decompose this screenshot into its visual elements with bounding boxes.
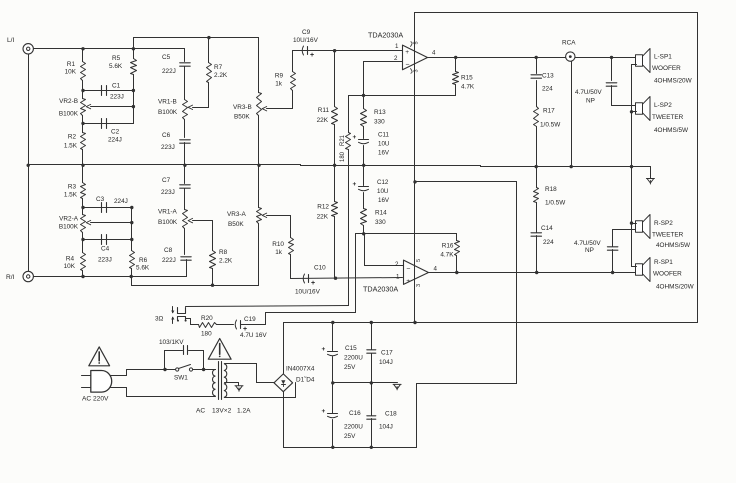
node C16 bottom xyxy=(331,446,334,449)
node rail column C xyxy=(183,164,186,167)
wire R20 to C19 xyxy=(217,324,234,326)
potentiometer VR1-B xyxy=(183,100,188,120)
speaker R-SP2 xyxy=(636,221,643,233)
capacitor C17 xyxy=(371,323,373,350)
node C1 left xyxy=(81,89,84,92)
svg-text:1k: 1k xyxy=(275,249,283,256)
node R14 bottom xyxy=(362,232,365,235)
resistor R11 xyxy=(334,51,336,107)
svg-text:+: + xyxy=(406,278,410,285)
resistor R10 xyxy=(290,216,292,238)
svg-text:R9: R9 xyxy=(275,73,284,80)
resistor R9 xyxy=(292,51,294,72)
wire ground stub xyxy=(632,166,651,168)
svg-text:R-SP1: R-SP1 xyxy=(654,259,673,266)
capacitor C11 xyxy=(359,139,369,141)
svg-text:C19: C19 xyxy=(244,316,256,323)
node C13 top xyxy=(535,56,538,59)
wire R input xyxy=(34,276,187,278)
node R-SP2 return xyxy=(630,221,633,224)
resistor R1 xyxy=(82,49,84,62)
wire C5 to VR1-B xyxy=(184,67,186,100)
node C4 left xyxy=(81,238,84,241)
svg-text:C17: C17 xyxy=(381,350,393,357)
resistor R18 xyxy=(536,167,538,188)
resistor R4 xyxy=(82,240,84,253)
wire secondary centre tap xyxy=(225,382,239,384)
svg-text:R16: R16 xyxy=(442,243,454,250)
svg-text:180: 180 xyxy=(201,331,212,338)
svg-text:R6: R6 xyxy=(139,257,148,264)
svg-text:R12: R12 xyxy=(317,204,329,211)
svg-text:5: 5 xyxy=(414,41,420,44)
svg-text:R20: R20 xyxy=(201,315,213,322)
svg-text:4: 4 xyxy=(434,266,438,273)
wire C19 riser xyxy=(241,324,266,326)
svg-text:WOOFER: WOOFER xyxy=(652,65,681,72)
capacitor C6 xyxy=(180,139,191,141)
resistor R20 xyxy=(199,323,217,328)
capacitor 4.7U/50V NP left xyxy=(611,58,613,81)
svg-text:2.2K: 2.2K xyxy=(214,72,228,79)
resistor R14 xyxy=(363,193,365,209)
svg-text:5.6K: 5.6K xyxy=(109,63,123,70)
svg-text:5.6K: 5.6K xyxy=(136,265,150,272)
wire secondary top xyxy=(225,363,257,365)
wire C8 to R input xyxy=(186,260,188,277)
svg-text:+: + xyxy=(311,280,315,287)
svg-text:2200U: 2200U xyxy=(344,355,363,362)
svg-text:25V: 25V xyxy=(344,433,356,440)
svg-text:B100K: B100K xyxy=(158,219,178,226)
node rail RCA xyxy=(570,165,573,168)
svg-text:C12: C12 xyxy=(377,179,389,186)
capacitor C13 xyxy=(536,58,538,74)
wire VR2-A wiper xyxy=(91,222,132,224)
speaker L-SP2 xyxy=(636,103,643,115)
resistor R3 xyxy=(82,166,84,183)
svg-text:10U: 10U xyxy=(377,188,388,195)
node R7 top xyxy=(207,36,210,39)
svg-text:4OHMS/20W: 4OHMS/20W xyxy=(656,284,695,291)
wire rail corner to VR3-B xyxy=(258,38,260,93)
wire lower-left rail xyxy=(132,285,259,287)
warning triangle plug xyxy=(89,347,110,366)
resistor R6 xyxy=(131,240,133,251)
svg-text:25V: 25V xyxy=(344,364,356,371)
node C4 right xyxy=(130,238,133,241)
svg-text:3Ω: 3Ω xyxy=(155,316,164,323)
node cap riser left xyxy=(163,368,166,371)
svg-text:16V: 16V xyxy=(378,197,390,204)
node NP2 bottom xyxy=(611,271,614,274)
svg-text:C8: C8 xyxy=(164,247,173,254)
wire switch to transformer xyxy=(193,369,216,371)
node C18 bottom xyxy=(370,446,373,449)
wire output-1 xyxy=(428,57,566,59)
svg-text:AC: AC xyxy=(196,408,205,415)
svg-text:1.2A: 1.2A xyxy=(237,408,251,415)
svg-text:222J: 222J xyxy=(162,68,176,75)
connector 3ohm upper xyxy=(172,307,174,313)
resistor R21 xyxy=(348,96,350,133)
svg-text:B100K: B100K xyxy=(59,224,79,231)
wire jack ground column xyxy=(28,55,30,272)
speaker L-SP1 xyxy=(636,55,643,67)
svg-text:103/1KV: 103/1KV xyxy=(159,339,184,346)
wire U2 pin2 xyxy=(364,234,366,266)
svg-text:+: + xyxy=(322,408,326,415)
wire VR1-A to C8 xyxy=(184,229,186,255)
wire connector lower to R20 xyxy=(186,318,191,320)
svg-text:22K: 22K xyxy=(317,117,329,124)
svg-text:+: + xyxy=(353,181,357,188)
wire output-2 xyxy=(429,272,637,274)
wire C6 to rail xyxy=(184,143,186,166)
svg-text:R8: R8 xyxy=(219,249,228,256)
resistor R17 xyxy=(536,81,538,107)
wire power line xyxy=(414,13,416,323)
svg-text:4.7K: 4.7K xyxy=(461,84,475,91)
svg-text:R15: R15 xyxy=(461,75,473,82)
svg-text:RCA: RCA xyxy=(562,40,576,47)
node C9-R11 xyxy=(333,49,336,52)
wire upper-left rail xyxy=(134,37,259,39)
wire secondary bottom xyxy=(225,397,296,399)
node rail R11R12 xyxy=(333,164,336,167)
wire R6 rail jog xyxy=(131,277,133,286)
svg-text:VR1-A: VR1-A xyxy=(158,209,178,216)
bridge rectifier IN4007X4 D1-D4 xyxy=(274,374,293,392)
svg-text:R1: R1 xyxy=(67,61,76,68)
node rail speaker-return xyxy=(630,165,633,168)
wire VR1-B to C6 xyxy=(184,120,186,138)
svg-text:10U: 10U xyxy=(378,141,389,148)
svg-text:VR1-B: VR1-B xyxy=(158,99,177,106)
wire VR2-B wiper xyxy=(91,106,134,108)
wire VR2-B bottom lead xyxy=(82,116,84,124)
svg-text:1/0.5W: 1/0.5W xyxy=(545,200,566,207)
wire VR1-A wiper to R8 xyxy=(193,220,213,222)
transformer T1 secondary xyxy=(224,364,226,398)
wire supply mid line xyxy=(333,382,398,384)
op-amp U1 TDA2030A xyxy=(403,45,428,70)
speaker R-SP1 xyxy=(636,264,643,276)
node NP cap top xyxy=(610,56,613,59)
svg-text:4OHMS/5W: 4OHMS/5W xyxy=(654,127,689,134)
svg-text:R13: R13 xyxy=(374,109,386,116)
svg-text:R14: R14 xyxy=(375,210,387,217)
node R4 bottom xyxy=(81,275,84,278)
svg-text:C4: C4 xyxy=(101,246,110,253)
svg-text:R18: R18 xyxy=(545,186,557,193)
resistor R8 xyxy=(212,221,214,251)
svg-text:2.2K: 2.2K xyxy=(219,258,233,265)
svg-text:VR2-B: VR2-B xyxy=(59,98,78,105)
node rail C11C12 xyxy=(362,164,365,167)
wire feedback-2 xyxy=(356,233,457,235)
wire R-SP1 return xyxy=(632,266,637,268)
node C17 bottom xyxy=(370,381,373,384)
wire bridge bottom xyxy=(283,392,285,448)
ground symbol supply xyxy=(393,383,401,385)
capacitor C3 xyxy=(83,207,132,209)
node input-R1 junction xyxy=(81,47,84,50)
wire rail to C12 xyxy=(363,166,365,186)
resistor R2 xyxy=(82,124,84,133)
wire bridge top to V+ rail xyxy=(283,323,285,374)
wire V+ rail xyxy=(284,322,698,324)
svg-text:22K: 22K xyxy=(317,214,329,221)
svg-text:180: 180 xyxy=(340,151,346,162)
svg-text:R17: R17 xyxy=(543,108,555,115)
wire VR2-B top lead xyxy=(82,91,84,99)
svg-text:C15: C15 xyxy=(345,345,357,352)
svg-text:AC 220V: AC 220V xyxy=(82,396,109,403)
svg-text:R7: R7 xyxy=(214,64,223,71)
svg-text:224J: 224J xyxy=(108,137,122,144)
svg-text:−: − xyxy=(405,62,409,69)
capacitor C10 xyxy=(291,278,403,279)
svg-text:R4: R4 xyxy=(66,256,75,263)
svg-text:IN4007X4: IN4007X4 xyxy=(286,366,315,373)
svg-text:10K: 10K xyxy=(65,69,77,76)
svg-text:4.7U 16V: 4.7U 16V xyxy=(240,332,267,339)
svg-text:TDA2030A: TDA2030A xyxy=(363,285,398,294)
node R6 bottom xyxy=(130,275,133,278)
node rail VR3 xyxy=(257,164,260,167)
capacitor C9 xyxy=(293,50,403,52)
potentiometer VR3-A xyxy=(258,166,260,208)
node R15 top xyxy=(454,56,457,59)
svg-text:SW1: SW1 xyxy=(174,375,188,382)
svg-text:TWEETER: TWEETER xyxy=(652,232,684,239)
wire connector upper xyxy=(186,306,349,307)
potentiometer VR2-B xyxy=(81,99,86,116)
wire L-SP2 return xyxy=(632,111,637,113)
svg-text:TDA2030A: TDA2030A xyxy=(368,31,403,40)
connector 3ohm lower xyxy=(172,318,174,324)
capacitor C7 xyxy=(180,184,191,186)
node C14 bottom xyxy=(535,271,538,274)
wire NP to L-SP2 xyxy=(612,105,637,107)
svg-text:C6: C6 xyxy=(162,132,171,139)
potentiometer VR3-B xyxy=(257,93,262,116)
node C17 top xyxy=(370,321,373,324)
wire power tee right xyxy=(415,181,517,183)
wire R21 to connector xyxy=(348,305,350,307)
node C2 left xyxy=(81,122,84,125)
resistor R15 xyxy=(455,58,457,72)
svg-text:C9: C9 xyxy=(302,29,311,36)
capacitor C14 xyxy=(536,236,538,273)
svg-text:224: 224 xyxy=(543,239,554,246)
svg-text:3: 3 xyxy=(416,284,422,287)
svg-text:C2: C2 xyxy=(111,129,120,136)
svg-text:104J: 104J xyxy=(379,359,393,366)
svg-text:R5: R5 xyxy=(112,55,121,62)
svg-text:222J: 222J xyxy=(162,257,176,264)
svg-text:1: 1 xyxy=(395,43,399,50)
svg-text:VR2-A: VR2-A xyxy=(59,216,79,223)
resistor R7 xyxy=(208,38,210,63)
svg-text:B50K: B50K xyxy=(228,221,244,228)
capacitor C18 xyxy=(371,383,373,416)
input jack R/I xyxy=(23,271,33,281)
svg-text:TWEETER: TWEETER xyxy=(652,114,684,121)
op-amp U2 TDA2030A xyxy=(404,260,429,284)
svg-text:L-SP2: L-SP2 xyxy=(654,102,672,109)
capacitor C8 xyxy=(181,256,191,258)
svg-text:5: 5 xyxy=(416,259,422,262)
svg-text:1.5K: 1.5K xyxy=(64,192,78,199)
svg-text:−: − xyxy=(406,266,410,273)
svg-text:B100K: B100K xyxy=(59,111,79,118)
svg-text:L-SP1: L-SP1 xyxy=(654,54,672,61)
node power tee xyxy=(413,180,416,183)
svg-text:D1˜D4: D1˜D4 xyxy=(296,377,315,384)
svg-text:C13: C13 xyxy=(542,73,554,80)
svg-text:10U/16V: 10U/16V xyxy=(293,37,319,44)
svg-text:10U/16V: 10U/16V xyxy=(295,289,321,296)
node R16 bottom xyxy=(455,271,458,274)
wire VR1-B wiper to R7 xyxy=(193,107,209,109)
svg-text:224: 224 xyxy=(542,86,553,93)
svg-text:16V: 16V xyxy=(378,150,390,157)
svg-text:C3: C3 xyxy=(96,196,105,203)
svg-text:2: 2 xyxy=(395,261,399,268)
svg-text:B50K: B50K xyxy=(234,114,250,121)
svg-text:330: 330 xyxy=(374,119,385,126)
wire plug top xyxy=(111,375,127,377)
node rail R17R18 xyxy=(535,165,538,168)
capacitor C15 xyxy=(332,323,334,351)
svg-text:104J: 104J xyxy=(379,424,393,431)
svg-text:223J: 223J xyxy=(110,94,124,101)
wire plug bottom xyxy=(111,387,127,389)
wire L input xyxy=(34,48,185,50)
capacitor C2 xyxy=(83,123,134,125)
svg-text:C1: C1 xyxy=(112,83,121,90)
wire R5 top jog xyxy=(133,38,135,49)
svg-text:10K: 10K xyxy=(64,263,76,270)
svg-text:NP: NP xyxy=(586,98,595,105)
capacitor C12 xyxy=(359,186,369,188)
capacitor 4.7U/50V NP right xyxy=(612,250,614,273)
svg-text:+: + xyxy=(322,346,326,353)
capacitor 103/1KV xyxy=(164,351,166,370)
svg-text:+: + xyxy=(405,49,409,56)
svg-text:C11: C11 xyxy=(378,132,389,139)
wire L-SP1 return xyxy=(632,64,637,66)
wire right side rail xyxy=(697,13,699,323)
resistor R5 xyxy=(133,49,135,59)
ground symbol centre tap xyxy=(235,385,243,387)
svg-text:223J: 223J xyxy=(161,144,175,151)
svg-text:4.7K: 4.7K xyxy=(440,252,454,259)
svg-text:R/I: R/I xyxy=(6,274,15,281)
transformer core xyxy=(218,362,220,400)
node C1 right xyxy=(132,89,135,92)
svg-text:R-SP2: R-SP2 xyxy=(654,220,673,227)
wire ground rail xyxy=(29,164,301,166)
ground symbol right xyxy=(646,178,654,180)
potentiometer VR1-A xyxy=(183,210,188,229)
capacitor C5 xyxy=(180,62,191,64)
wire power down-left xyxy=(417,383,517,385)
svg-text:+: + xyxy=(310,52,314,59)
capacitor C4 xyxy=(83,239,132,241)
svg-text:B100K: B100K xyxy=(158,109,178,116)
svg-text:1.5K: 1.5K xyxy=(64,143,78,150)
svg-text:C18: C18 xyxy=(385,411,397,418)
input jack L/I xyxy=(23,44,33,54)
node C3 left xyxy=(81,206,84,209)
node input-R5 junction xyxy=(132,47,135,50)
capacitor C16 xyxy=(332,383,334,414)
svg-text:R3: R3 xyxy=(68,184,77,191)
node rail-R2R3 xyxy=(81,164,84,167)
node power line V+ rail xyxy=(413,321,416,324)
node C10-R12 xyxy=(334,277,337,280)
svg-text:R11: R11 xyxy=(318,107,330,114)
svg-text:C5: C5 xyxy=(162,54,171,61)
svg-text:C7: C7 xyxy=(162,177,171,184)
wire input to C5 xyxy=(184,49,186,62)
svg-text:1: 1 xyxy=(396,274,400,281)
capacitor C19 xyxy=(235,320,236,329)
wire column B lower xyxy=(133,91,135,124)
wire speaker return lower xyxy=(631,65,633,267)
node C15 bottom xyxy=(331,381,334,384)
svg-text:223J: 223J xyxy=(161,189,175,196)
svg-text:R21: R21 xyxy=(340,134,346,146)
svg-text:VR3-B: VR3-B xyxy=(233,104,252,111)
wire V- rail xyxy=(284,447,417,449)
svg-text:330: 330 xyxy=(375,219,386,226)
svg-text:4OHMS/20W: 4OHMS/20W xyxy=(654,78,693,85)
svg-text:4: 4 xyxy=(432,50,436,57)
node wiper-A right xyxy=(130,221,133,224)
node C3 right xyxy=(130,206,133,209)
wire NP2 to R-SP2 xyxy=(613,229,637,231)
wire VR3-A wiper xyxy=(267,215,291,217)
wire VR3-B wiper xyxy=(267,108,293,110)
svg-text:3: 3 xyxy=(414,69,420,72)
node wiper-B right xyxy=(132,105,135,108)
svg-text:4OHMS/5W: 4OHMS/5W xyxy=(656,242,691,249)
svg-text:C10: C10 xyxy=(314,265,326,272)
wire C11 to rail xyxy=(363,146,365,166)
svg-text:224J: 224J xyxy=(114,198,128,205)
svg-text:2: 2 xyxy=(394,55,398,62)
svg-text:2200U: 2200U xyxy=(344,424,363,431)
plug AC 220V xyxy=(91,371,112,393)
svg-text:R10: R10 xyxy=(272,241,284,248)
node L-SP2 return xyxy=(630,110,633,113)
resistor R13 xyxy=(363,96,365,109)
svg-text:+: + xyxy=(353,134,357,141)
svg-text:223J: 223J xyxy=(98,257,112,264)
svg-text:C14: C14 xyxy=(541,225,553,232)
wire U1 pin2 xyxy=(364,61,403,63)
wire feedback-1 xyxy=(349,95,456,97)
svg-text:WOOFER: WOOFER xyxy=(653,271,682,278)
svg-text:VR3-A: VR3-A xyxy=(227,211,247,218)
node R13 top xyxy=(362,94,365,97)
svg-text:C16: C16 xyxy=(349,410,361,417)
warning triangle transformer xyxy=(208,339,231,360)
